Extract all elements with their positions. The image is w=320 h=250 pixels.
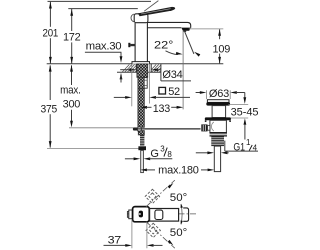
svg-text:201: 201	[43, 27, 59, 39]
dimension 172 text	[63, 32, 81, 44]
35-45 lower arrow	[244, 118, 247, 139]
dimension 133 text	[153, 103, 170, 115]
mounting stud box	[144, 78, 148, 89]
svg-text:35-45: 35-45	[231, 107, 259, 119]
svg-text:375: 375	[41, 104, 58, 116]
shank nut	[138, 77, 144, 88]
22 right arrowhead	[194, 52, 200, 57]
label max.30 leader	[85, 52, 123, 63]
extension line rod level (max300)	[69, 127, 133, 129]
extension line spout tip (37)	[131, 220, 133, 249]
handle motion arc	[131, 14, 134, 22]
mounting deck line	[47, 63, 224, 65]
O63 extension ticks	[206, 90, 230, 99]
handle rotated position lower	[146, 223, 160, 237]
svg-text:300: 300	[63, 99, 81, 111]
G3/8 leader arrow	[144, 157, 173, 160]
plan spout tip	[127, 210, 132, 219]
svg-text:37: 37	[108, 234, 122, 246]
max.30 lower arrow	[120, 73, 123, 83]
dimension O63	[196, 91, 247, 104]
rod joint	[133, 127, 142, 131]
22 arc leader	[166, 51, 183, 55]
rod end arrow	[137, 130, 140, 133]
dimension 109 line	[218, 29, 221, 63]
hose thread G3/8	[140, 135, 144, 146]
50 degree axis lower	[146, 222, 175, 249]
flexible hoses	[138, 88, 144, 127]
waste seal ring	[205, 117, 231, 122]
deck hole right edge	[150, 64, 152, 73]
dimension 172 line	[70, 9, 73, 64]
hose segment below joint	[138, 131, 144, 135]
plan lever blade	[150, 209, 179, 222]
svg-text:133: 133	[153, 103, 170, 115]
deck right edge and label bracket	[161, 64, 191, 81]
50 degree axis upper	[146, 180, 175, 207]
aerator	[181, 28, 190, 32]
dimension 37 line	[104, 244, 163, 247]
G3/8 left arrow	[125, 157, 140, 160]
extension line base right (52)	[148, 64, 150, 104]
dimension 201 text	[43, 27, 59, 39]
G3/8 text	[150, 144, 172, 160]
svg-text:Ø63: Ø63	[209, 88, 229, 100]
svg-text:G1: G1	[233, 141, 244, 153]
svg-text:172: 172	[63, 32, 81, 44]
threaded shank	[137, 64, 148, 77]
dimension max180 line	[140, 169, 214, 172]
dimension O34 arrows	[120, 68, 161, 71]
waste thread	[211, 137, 224, 147]
dimension 52 line	[114, 96, 190, 99]
35-45 lower line	[228, 117, 248, 119]
G1-1/4 text	[233, 138, 257, 153]
deck bottom line	[117, 71, 161, 73]
svg-text:109: 109	[213, 43, 231, 55]
extension line top of lever (201)	[48, 0, 152, 2]
waste tailpipe	[214, 146, 220, 172]
G1-1/4 label bracket	[225, 141, 258, 152]
extension line base left (52)	[131, 64, 133, 106]
dimension 201 line	[49, 2, 52, 64]
extension line aerator level (109)	[189, 28, 224, 30]
lever blade	[138, 7, 175, 16]
svg-text:Ø34: Ø34	[162, 69, 182, 81]
spout arm	[147, 22, 190, 27]
label 50 lower	[170, 227, 187, 239]
svg-text:22°: 22°	[154, 39, 173, 51]
rotation arc	[181, 204, 183, 225]
svg-text:max.30: max.30	[86, 41, 122, 53]
plan lever end cap	[183, 208, 188, 221]
waste body	[210, 120, 227, 132]
plan lever square hole	[155, 210, 163, 219]
35-45 text	[231, 107, 259, 119]
dimension 109 text	[213, 43, 231, 55]
faucet body right edge	[146, 22, 148, 61]
vertical reference line from aerator	[182, 31, 184, 110]
dimension max180 text	[158, 165, 199, 177]
waste locknut	[210, 133, 228, 137]
raised lever position line	[144, 1, 158, 12]
faucet body left edge	[134, 23, 136, 62]
plan center line	[128, 213, 197, 215]
dimension 375 line	[49, 65, 52, 148]
deck hatch right	[149, 64, 167, 72]
G1-1/4 left arrow	[196, 151, 214, 154]
pull-rod knob	[128, 43, 135, 47]
svg-text:max.: max.	[60, 85, 81, 97]
dimension max300 line	[70, 65, 73, 127]
svg-text:50°: 50°	[170, 227, 187, 239]
plan pivot pill	[139, 211, 143, 218]
extension line (37)	[146, 223, 148, 249]
waste flange	[206, 102, 230, 105]
base plate	[132, 62, 150, 64]
35-45 upper line	[228, 103, 248, 105]
dimension O63 text	[209, 88, 229, 100]
label 22 text	[154, 39, 173, 51]
extension line top of spout body (172)	[68, 8, 138, 10]
hose tail tube	[141, 150, 144, 172]
waste neck	[212, 106, 226, 118]
svg-text:52: 52	[168, 86, 180, 98]
label square52	[159, 86, 180, 98]
waste plug	[207, 100, 229, 103]
handle rotated position upper	[145, 189, 159, 203]
22 degree stream line	[184, 31, 194, 54]
horizontal pop-up rod	[133, 128, 201, 130]
svg-text:max.180: max.180	[158, 165, 199, 177]
label max.30 text	[86, 41, 122, 53]
handle base cube	[134, 14, 148, 23]
extension line hose end (375)	[47, 147, 142, 149]
label 50 upper	[170, 192, 187, 204]
dimension 37 text	[108, 234, 122, 246]
hose nut	[138, 146, 146, 150]
plan cube body	[133, 207, 150, 222]
label O34 text	[162, 69, 182, 81]
deck hatch left	[122, 64, 142, 72]
deck hole left edge	[135, 64, 137, 73]
dimension max300 text	[60, 85, 81, 111]
G1-1/4 right arrow	[221, 151, 229, 154]
dimension 133 line	[140, 106, 183, 109]
dimension 375 text	[41, 104, 58, 116]
svg-text:G: G	[150, 148, 158, 160]
svg-text:50°: 50°	[170, 192, 187, 204]
waste rod knob	[201, 124, 210, 131]
